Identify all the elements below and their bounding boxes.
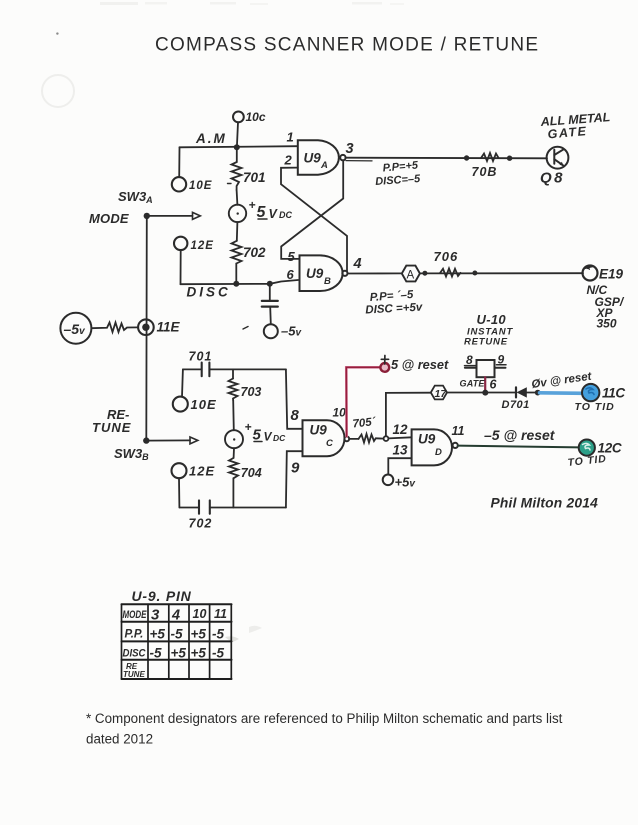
wire 12E to DISC [180, 250, 182, 284]
wire hexagon to E19 [420, 272, 583, 274]
wire 701 to +5VDC [236, 190, 239, 205]
svg-text:-5: -5 [212, 627, 224, 642]
wire DISC [181, 280, 299, 300]
nand gate U9A [298, 140, 346, 175]
svg-text:A.M: A.M [195, 131, 227, 146]
svg-text:703: 703 [241, 385, 262, 399]
node on output wire [464, 155, 469, 160]
resistor 704 [229, 448, 262, 480]
svg-text:13: 13 [393, 443, 409, 458]
svg-text:702: 702 [243, 245, 266, 260]
terminal 12C [579, 440, 622, 456]
terminal +5 lower [383, 475, 417, 490]
terminal +5 at reset red [380, 356, 449, 373]
svg-text:8: 8 [291, 407, 300, 424]
wire to lower 10E [181, 369, 184, 396]
wire U9D output to 12C [458, 446, 579, 448]
wire pin9 [286, 451, 303, 507]
capacitor to -5V [262, 284, 278, 324]
svg-text:5 @ reset: 5 @ reset [391, 357, 449, 372]
wire switch SW3B arrow [146, 437, 198, 444]
terminal 12E [174, 237, 214, 252]
transistor Q8 [540, 147, 568, 187]
table grid [122, 604, 232, 679]
node dot after 706 [472, 271, 477, 276]
svg-text:3: 3 [151, 607, 160, 624]
nand gate U9B [300, 255, 348, 291]
svg-text:-5: -5 [150, 646, 162, 661]
svg-text:DISC: DISC [187, 285, 231, 300]
wire U9B output to hexagon A [348, 272, 402, 274]
svg-text:–5 @ reset: –5 @ reset [484, 427, 556, 443]
table row RETUNE [123, 662, 145, 679]
wire U9A output to Q8 [346, 157, 547, 160]
svg-text:E19: E19 [599, 267, 624, 282]
node DISC junction 2 [267, 281, 273, 287]
pin 9 label U-10 [498, 353, 505, 367]
svg-text:P.P.: P.P. [125, 629, 144, 641]
svg-text:* Component designators are re: * Component designators are referenced t… [86, 711, 563, 726]
svg-text:TUNE: TUNE [123, 670, 145, 679]
power source -5V [60, 313, 91, 344]
pin 8 label U-10 [466, 353, 473, 367]
wire U9C out to 705 [349, 438, 358, 440]
svg-text:Phil Milton 2014: Phil Milton 2014 [491, 496, 599, 511]
resistor 701 [228, 150, 266, 190]
svg-text:701: 701 [189, 350, 213, 364]
svg-text:+5: +5 [191, 646, 207, 661]
wire hexagon 17 to junction [447, 392, 516, 394]
svg-text:A: A [320, 160, 328, 171]
diode D701 [502, 387, 530, 411]
nand gate U9D [412, 429, 458, 465]
svg-text:GATE: GATE [460, 379, 486, 389]
wire output3 to pin5 U9B [281, 160, 343, 259]
resistor 703 [229, 369, 262, 400]
wire 705 to junction [376, 437, 384, 439]
wire 10C to A.M junction [237, 122, 238, 144]
node on output wire 2 [507, 156, 512, 161]
svg-text:+5: +5 [150, 627, 166, 642]
node A.M junction [234, 144, 240, 150]
svg-text:4: 4 [171, 608, 180, 624]
svg-text:10c: 10c [246, 110, 266, 124]
svg-text:10: 10 [193, 607, 207, 621]
node DISC junction 1 [233, 281, 239, 287]
svg-text:A: A [407, 270, 415, 282]
svg-text:-5: -5 [212, 646, 224, 661]
node MODE junction [144, 213, 150, 219]
wire vertical bus SW3A to SW3B [145, 216, 148, 441]
svg-text:6: 6 [490, 378, 498, 392]
svg-text:Q8: Q8 [540, 170, 565, 187]
svg-text:DISC: DISC [123, 648, 147, 660]
tick mark left of -5V [243, 327, 248, 330]
svg-text:U9: U9 [310, 423, 328, 438]
wire pin8 [286, 369, 303, 428]
label ALL METAL GATE [539, 110, 610, 141]
wire diode to junction [527, 392, 536, 394]
svg-text:9: 9 [291, 460, 300, 477]
wire feedback output4 to pin2 U9A [281, 168, 347, 272]
svg-text:COMPASS SCANNER MODE / RETUNE: COMPASS SCANNER MODE / RETUNE [155, 35, 539, 56]
svg-text:6: 6 [287, 267, 295, 282]
wire 702 to DISC [235, 264, 237, 284]
svg-text:DC: DC [279, 210, 292, 220]
wire gate drop maroon [484, 377, 486, 390]
wire -5V squiggle to 11E [91, 323, 138, 333]
node junction dot gate [482, 390, 488, 396]
svg-text:U-9. PIN: U-9. PIN [132, 588, 192, 604]
terminal E19 [583, 266, 624, 282]
svg-text:+: + [245, 420, 252, 434]
svg-text:DC: DC [273, 433, 286, 443]
svg-text:17: 17 [435, 388, 448, 400]
svg-text:10: 10 [333, 406, 347, 420]
terminal 11C [582, 384, 625, 401]
svg-text:U9: U9 [304, 151, 322, 166]
power source +5VDC [229, 198, 293, 222]
node junction circle [384, 436, 389, 441]
resistor 70B [472, 153, 499, 179]
svg-text:11: 11 [452, 424, 465, 438]
wire switch SW3A arrow [147, 212, 201, 219]
wire 704 to bottom wire [232, 478, 234, 507]
wire +5VDC to 702 [236, 222, 239, 241]
terminal 10C [233, 110, 266, 124]
resistor 702 [232, 241, 267, 264]
svg-text:V: V [264, 430, 273, 444]
wire blue 0v at reset [540, 391, 584, 395]
svg-text:B: B [324, 276, 331, 287]
label GATE 6 [460, 378, 498, 392]
svg-text:C: C [326, 438, 333, 449]
svg-text:11C: 11C [602, 386, 625, 401]
wire red +5 at reset [346, 367, 381, 436]
table row MODE [123, 607, 228, 624]
svg-text:3: 3 [346, 141, 354, 157]
wire riser to gate line [386, 393, 431, 437]
svg-text:12: 12 [393, 422, 409, 437]
switch SW3B node [143, 437, 149, 443]
wire 12E to bottom [178, 478, 180, 507]
svg-text:70B: 70B [472, 165, 498, 179]
svg-text:U9: U9 [306, 266, 324, 281]
svg-text:350: 350 [597, 317, 617, 331]
node dot after hexagon [422, 271, 427, 276]
power source +5VDC lower [225, 420, 286, 448]
svg-text:12E: 12E [189, 464, 215, 479]
svg-text:U-10: U-10 [477, 312, 507, 327]
svg-text:MODE: MODE [123, 609, 147, 621]
terminal 10E [172, 177, 213, 192]
svg-text:5: 5 [288, 249, 296, 264]
wire pin13 [388, 443, 411, 475]
terminal 10E lower [173, 397, 217, 412]
node 17 hexagon [431, 386, 448, 400]
svg-text:2: 2 [284, 153, 293, 168]
svg-text:MODE: MODE [89, 211, 129, 226]
table row DISC [123, 646, 225, 661]
svg-text:10E: 10E [191, 397, 217, 412]
svg-text:-5: -5 [171, 627, 183, 642]
wire 703 to +5VDC lower [232, 401, 235, 431]
svg-text:11E: 11E [157, 320, 181, 335]
svg-text:1: 1 [287, 130, 294, 145]
U-10 box [465, 360, 506, 377]
capacitor 701 top wire [183, 350, 286, 377]
wire pin12 [388, 422, 411, 438]
label RE-TUNE [92, 407, 131, 435]
label N/C GSP/XP350 green [587, 283, 625, 331]
svg-text:10E: 10E [189, 180, 212, 192]
table row P.P. [125, 627, 225, 642]
svg-text:706: 706 [434, 249, 459, 264]
svg-text:4: 4 [353, 256, 362, 272]
node junction dot before blue [535, 390, 541, 396]
svg-text:U9: U9 [418, 432, 436, 447]
svg-text:12E: 12E [191, 240, 214, 252]
node A test point hexagon [402, 266, 420, 282]
resistor 705 [352, 416, 377, 442]
svg-text:D: D [435, 447, 442, 458]
wire to 10E [178, 147, 180, 177]
svg-text:TUNE: TUNE [92, 420, 131, 435]
svg-text:11: 11 [214, 607, 227, 621]
U-10 instant retune label [464, 312, 513, 348]
terminal -5V [264, 324, 303, 339]
svg-text:+: + [249, 198, 256, 212]
svg-text:702: 702 [189, 517, 213, 531]
stray stroke under output 3 [346, 160, 372, 162]
nand gate U9C [303, 420, 350, 456]
capacitor 702 bottom wire [179, 500, 286, 530]
svg-text:dated 2012: dated 2012 [86, 732, 153, 747]
svg-text:RETUNE: RETUNE [464, 337, 508, 348]
svg-text:704: 704 [241, 466, 262, 480]
terminal 12E lower [172, 463, 216, 478]
svg-text:D701: D701 [502, 399, 530, 411]
svg-text:+5: +5 [191, 627, 207, 642]
wire A.M [180, 131, 297, 147]
terminal 11E [138, 319, 180, 335]
svg-text:+5: +5 [171, 646, 187, 661]
svg-text:TO TID: TO TID [575, 401, 615, 413]
resistor 706 [434, 249, 461, 277]
svg-text:705´: 705´ [352, 416, 377, 430]
svg-text:701: 701 [243, 170, 266, 185]
